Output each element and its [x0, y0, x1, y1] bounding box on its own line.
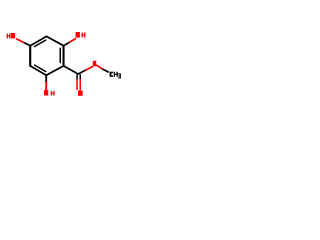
bond C1-C2 double-bond inner line: [35, 40, 46, 46]
bond O-CH3 (O half): [97, 65, 103, 69]
carbonyl C7=O double bond line 2 (C half): [79, 75, 81, 80]
bond C2-O hydroxyl top-left (O half): [17, 39, 24, 42]
atom label O of OH bottom (solid bold O glyph): [44, 90, 48, 96]
label C of methyl CH3: [110, 72, 114, 77]
carbonyl C7=O double bond line 2 (O half): [79, 80, 81, 90]
bond C6-C1 (ring top-right edge): [47, 36, 64, 45]
chemical structure diagram: methyl 2,4,6-trihydroxybenzoate: [0, 0, 130, 130]
bond C1-C2 (ring top-left edge, outer line): [30, 36, 46, 45]
carbonyl C7=O double bond line 1 (O half): [76, 80, 78, 90]
bond C7-O ester single bond (C half): [78, 70, 86, 74]
label subscript 3 of methyl CH3: [118, 73, 121, 78]
bond C2-O hydroxyl top-left (C half): [23, 42, 30, 45]
label H of methyl CH3: [114, 72, 118, 77]
bond C3-C4 (ring bottom-left edge, outer line): [30, 66, 46, 75]
atom label O of HO top-left (solid bold O glyph): [11, 33, 15, 38]
bond C7-O ester single bond (O half): [86, 67, 93, 70]
atom label H of HO top-left: [7, 34, 11, 39]
bond C5-C6 (ring right edge, outer line): [62, 46, 64, 66]
bond C2-C3 (ring left edge): [29, 46, 31, 66]
atom label O of OH top-right (solid bold O glyph): [76, 32, 80, 38]
bond C4-C5 (ring bottom-right edge): [46, 66, 63, 75]
bond C6-O hydroxyl top-right (C half): [64, 42, 70, 45]
bond O-CH3 (C half): [103, 69, 108, 72]
bond C5-C6 double-bond inner line: [59, 48, 61, 62]
atom label H of OH bottom: [51, 91, 55, 96]
atom label O ester (solid bold O glyph): [93, 61, 96, 66]
carbonyl C7=O double bond line 1 (C half): [76, 75, 78, 80]
bond C4-O hydroxyl bottom (C half): [45, 75, 47, 82]
atom label H of OH top-right: [82, 32, 86, 37]
bond C3-C4 double-bond inner line: [35, 65, 46, 71]
atom label O carbonyl (solid bold O glyph): [78, 90, 83, 95]
bond C5-C7 to ester carbon: [64, 66, 79, 74]
bond C4-O hydroxyl bottom (O half): [45, 82, 47, 89]
bond C6-O hydroxyl top-right (O half): [69, 39, 75, 42]
